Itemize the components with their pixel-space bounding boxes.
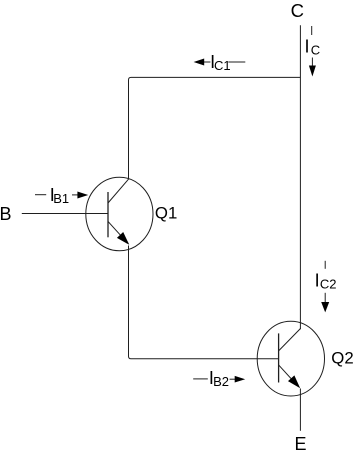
svg-text:B: B — [0, 204, 12, 224]
svg-text:E: E — [295, 434, 307, 453]
svg-text:C1: C1 — [214, 58, 231, 73]
svg-text:C2: C2 — [320, 276, 337, 291]
svg-text:C: C — [311, 42, 320, 57]
svg-text:I: I — [305, 36, 310, 56]
svg-text:B1: B1 — [53, 191, 69, 206]
svg-text:I: I — [315, 270, 320, 290]
svg-text:C: C — [291, 0, 304, 21]
svg-text:Q1: Q1 — [155, 204, 177, 223]
svg-text:B2: B2 — [213, 374, 229, 389]
svg-text:Q2: Q2 — [331, 349, 353, 368]
